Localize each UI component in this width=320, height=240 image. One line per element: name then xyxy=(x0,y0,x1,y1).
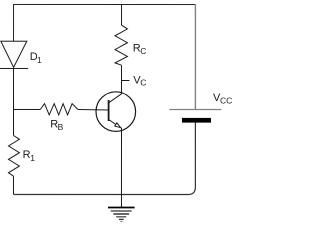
wire R1 to bottom rail xyxy=(12,176,14,194)
svg-text:C: C xyxy=(140,46,146,56)
wire RB to base xyxy=(78,108,109,111)
wire top rail xyxy=(14,4,196,41)
wire node A to RB xyxy=(14,108,41,110)
svg-text:C: C xyxy=(140,78,146,88)
wire ground stem xyxy=(120,195,122,208)
ground xyxy=(108,207,135,221)
resistor RB xyxy=(40,104,78,115)
svg-text:CC: CC xyxy=(220,96,232,106)
transistor Q1 emitter lead xyxy=(109,119,121,127)
wire diode to node A xyxy=(12,68,14,135)
wire right rail down to battery xyxy=(194,5,196,110)
transistor Q1 emitter arrowhead xyxy=(115,123,121,128)
resistor RC top wire xyxy=(121,5,123,26)
transistor Q1 base bar xyxy=(108,100,110,121)
svg-text:B: B xyxy=(58,122,64,132)
battery VCC positive plate xyxy=(169,109,221,111)
svg-text:1: 1 xyxy=(30,153,35,163)
battery VCC negative plate xyxy=(182,118,211,123)
transistor Q1 collector lead xyxy=(109,94,122,103)
resistor RC xyxy=(115,25,127,65)
svg-text:1: 1 xyxy=(37,55,42,65)
wire emitter to bottom rail xyxy=(120,128,122,195)
wire bottom rail with rounded corner to battery negative xyxy=(13,123,195,195)
transistor Q1 circle xyxy=(96,92,136,132)
wire RC to collector xyxy=(121,65,123,94)
node Vc tick xyxy=(122,80,130,82)
resistor R1 xyxy=(8,135,19,176)
diode D1 xyxy=(0,41,28,68)
